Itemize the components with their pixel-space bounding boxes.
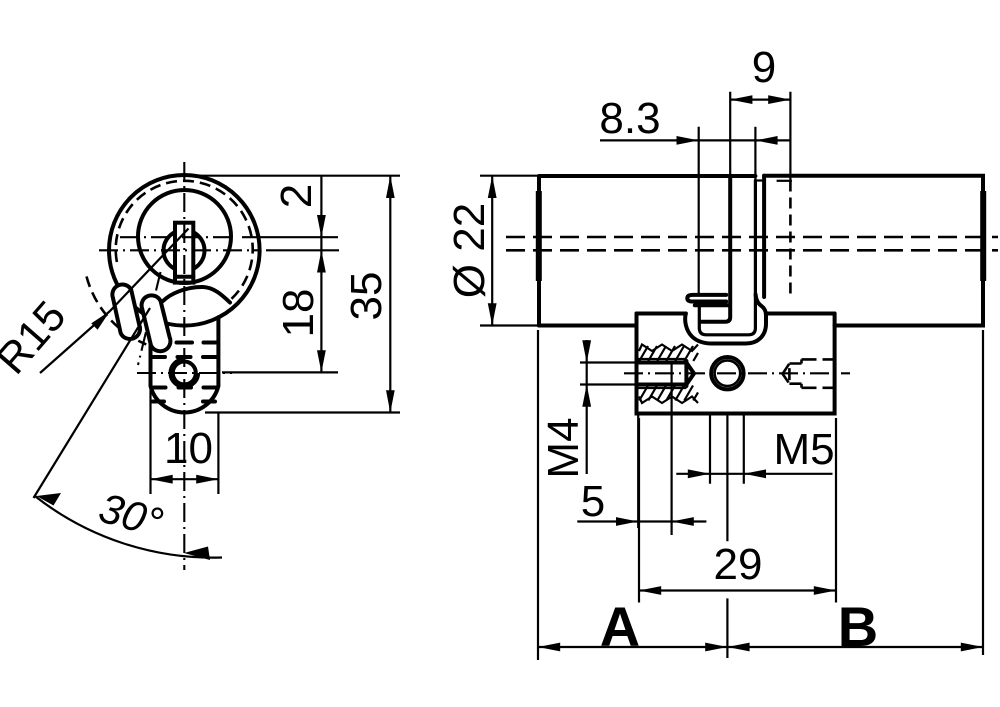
arrow A right (at middle) (705, 643, 727, 652)
M4 hatch strokes top band (639, 346, 698, 361)
block top edge left (637, 312, 686, 316)
dim M4 extension top (580, 361, 637, 363)
svg-text:A: A (600, 595, 640, 658)
dim line M5 (676, 473, 832, 475)
dim extension: plug center (242, 236, 338, 238)
hole center extension line (726, 414, 728, 659)
body outline right half (764, 176, 983, 326)
M4 hatch region sawtooth bottom (639, 397, 698, 404)
svg-text:18: 18 (274, 289, 323, 338)
dim line 35 (389, 176, 391, 413)
dim M4 extension bottom (580, 383, 637, 385)
block top edge right (766, 312, 835, 316)
arrow A left end (538, 643, 560, 652)
dim 2/18/35 extension: circle top (192, 175, 400, 177)
dim 10 extension left (149, 390, 151, 494)
dim 8.3 extension left (698, 127, 700, 295)
30 deg boundary line (34, 308, 151, 498)
hidden swept arc R15 (87, 276, 147, 344)
dim 29 extension left (638, 418, 640, 603)
M4 hatch strokes bottom band (639, 386, 698, 401)
fixing block outline (637, 314, 835, 414)
body circle (Ø22) (109, 175, 260, 326)
M4 drill tip (686, 361, 694, 386)
30 deg arc (36, 497, 223, 558)
dim line 9 (730, 98, 790, 100)
keyway slot bottom step (175, 275, 193, 279)
plug circle (138, 190, 231, 283)
arrow M5 right (744, 469, 766, 478)
arrow M5 left (688, 469, 710, 478)
svg-text:5: 5 (581, 477, 605, 526)
30 deg arc left arrowhead (37, 493, 62, 506)
arrow 29 left (639, 586, 661, 595)
dim 29 extension right (835, 418, 837, 603)
dim A/B extension left (537, 330, 539, 660)
svg-text:35: 35 (342, 272, 391, 321)
arrow 8.3 right (755, 136, 777, 145)
dim extension: lobe bottom (205, 411, 400, 413)
arrow B left (at middle) (727, 643, 749, 652)
body axis dashed (506, 249, 998, 252)
hidden cam ledge line (777, 180, 792, 182)
dim 10 extension right (217, 413, 219, 494)
dim M5 extension right (743, 414, 745, 484)
lobe screw hole (173, 362, 196, 385)
M5 cross hole outer (711, 357, 743, 389)
lobe hidden hole lines row 4 (153, 400, 216, 404)
body outline left half (539, 176, 755, 326)
M5 set screw core hidden (789, 359, 801, 387)
svg-text:8.3: 8.3 (599, 94, 660, 143)
dim line O22 (491, 176, 493, 326)
lobe hole horizontal center line (137, 372, 232, 374)
dim line 10 (151, 478, 219, 480)
arrow 10 left (151, 475, 173, 484)
cam slot left wall (702, 176, 731, 322)
M4 hole channel bottom (637, 383, 686, 387)
arrow 29 right (814, 586, 836, 595)
body horizontal center line (99, 249, 260, 251)
dim 9 extension left (729, 92, 731, 176)
arrow B right end (961, 643, 983, 652)
svg-text:B: B (838, 595, 878, 658)
hidden plug envelope arc (116, 181, 253, 302)
M5 set screw hidden (783, 364, 790, 384)
arrow O22 bottom (488, 303, 497, 325)
dim extension: body center (266, 249, 339, 251)
dim 5 extension right (thread end) (670, 386, 672, 535)
cam nose capsule inner (142, 295, 171, 351)
30 deg arc right arrowhead (184, 547, 210, 561)
arrow 35 bottom (386, 390, 395, 412)
dim O22 extension top (480, 175, 539, 177)
vertical center line (183, 162, 185, 570)
keyway slot rectangle (175, 223, 193, 283)
right half left edge (762, 176, 766, 297)
cam tab (687, 295, 726, 302)
arrow 2 upper (317, 215, 326, 237)
arrow 35 top (386, 176, 395, 198)
dim line M4 (586, 340, 588, 474)
arrow 10 right (196, 475, 218, 484)
slot gap ledge (755, 179, 764, 181)
arrow 8.3 left (677, 136, 699, 145)
cam recess outer (685, 295, 766, 344)
body bottom edge left of block (539, 324, 637, 328)
dim O22 extension bottom (480, 324, 539, 326)
cam nose capsule outer (112, 285, 140, 339)
M4 thread crest bottom (637, 387, 686, 389)
M4 hatch region sawtooth top (639, 345, 698, 352)
svg-text:M4: M4 (539, 417, 588, 478)
svg-text:29: 29 (714, 540, 763, 589)
dim line 2/18 (320, 176, 322, 372)
rotated axis dash-dot line (138, 272, 161, 365)
arrow 9 left (730, 95, 752, 104)
svg-text:Ø 22: Ø 22 (445, 203, 494, 298)
lobe outline (151, 317, 219, 412)
svg-text:2: 2 (272, 184, 321, 208)
arrow M4 bottom (582, 385, 591, 407)
plug horizontal center line (120, 236, 236, 238)
dim 8.3 extension right (754, 127, 756, 181)
dim line 29 (639, 589, 836, 591)
body right end cap accent (980, 191, 986, 281)
body left end cap accent (536, 191, 542, 281)
block hole center line (624, 372, 850, 374)
M4 thread crest top (637, 358, 686, 360)
dim 9 extension right (789, 92, 791, 181)
dim A/B extension right (982, 330, 984, 655)
dim line 5 (577, 520, 706, 522)
dim M5 extension left (709, 414, 711, 484)
arrow 2/18 middle (317, 250, 326, 272)
M5 cross hole inner (715, 360, 741, 386)
arrow M4 top (582, 340, 591, 362)
M4 hole channel top (637, 361, 686, 365)
dim 5 extension left (block left edge) (637, 414, 639, 529)
cam ledge (695, 303, 730, 307)
svg-text:M5: M5 (773, 425, 834, 474)
arrow O22 top (488, 176, 497, 198)
hidden cam edge dashed (789, 181, 792, 295)
lobe hidden hole lines row 2 (153, 355, 218, 359)
cam right edge with fillet and recess right wall (699, 181, 755, 335)
arrow 5 right (672, 517, 694, 526)
dim line 8.3 (600, 139, 790, 141)
M5 set screw thread hidden (802, 359, 836, 387)
svg-text:10: 10 (164, 424, 213, 473)
cam root wavy contour (163, 287, 230, 303)
arrow 5 left (616, 517, 638, 526)
dim extension: lobe hole center (222, 371, 338, 373)
lobe hidden hole lines row 1 (159, 341, 219, 345)
M4 thread end line (670, 361, 672, 386)
lobe screw hole thread arc (170, 359, 199, 388)
arrow 18 lower (317, 350, 326, 372)
svg-text:9: 9 (752, 43, 776, 92)
plug axis dashed (506, 236, 998, 239)
keyway circle (164, 230, 205, 271)
R15 arrowhead (91, 311, 110, 330)
arrow 9 right (768, 95, 790, 104)
dim line A/B (538, 646, 983, 648)
R15 leader line (40, 229, 189, 374)
lobe hidden hole lines row 3 (153, 386, 217, 390)
